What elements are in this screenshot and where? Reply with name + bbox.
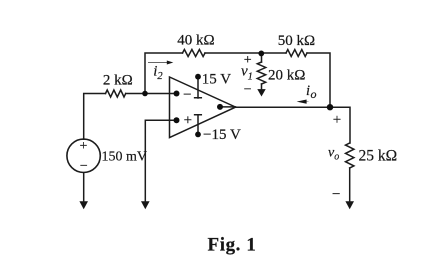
svg-text:+: + (333, 112, 341, 128)
svg-text:15 V: 15 V (202, 72, 231, 88)
svg-text:−15 V: −15 V (203, 127, 241, 143)
svg-text:−: − (183, 87, 191, 103)
svg-text:40 kΩ: 40 kΩ (177, 33, 214, 49)
svg-text:−: − (244, 82, 252, 97)
svg-text:50 kΩ: 50 kΩ (278, 33, 315, 49)
svg-text:Fig. 1: Fig. 1 (208, 234, 257, 255)
svg-text:+: + (79, 139, 87, 154)
svg-text:20 kΩ: 20 kΩ (268, 68, 305, 84)
svg-text:+: + (184, 113, 192, 129)
svg-text:150 mV: 150 mV (102, 150, 148, 165)
svg-text:−: − (80, 159, 88, 174)
svg-text:+: + (244, 53, 252, 68)
svg-text:−: − (332, 187, 340, 203)
svg-text:25 kΩ: 25 kΩ (359, 147, 398, 164)
svg-text:2 kΩ: 2 kΩ (103, 73, 133, 89)
